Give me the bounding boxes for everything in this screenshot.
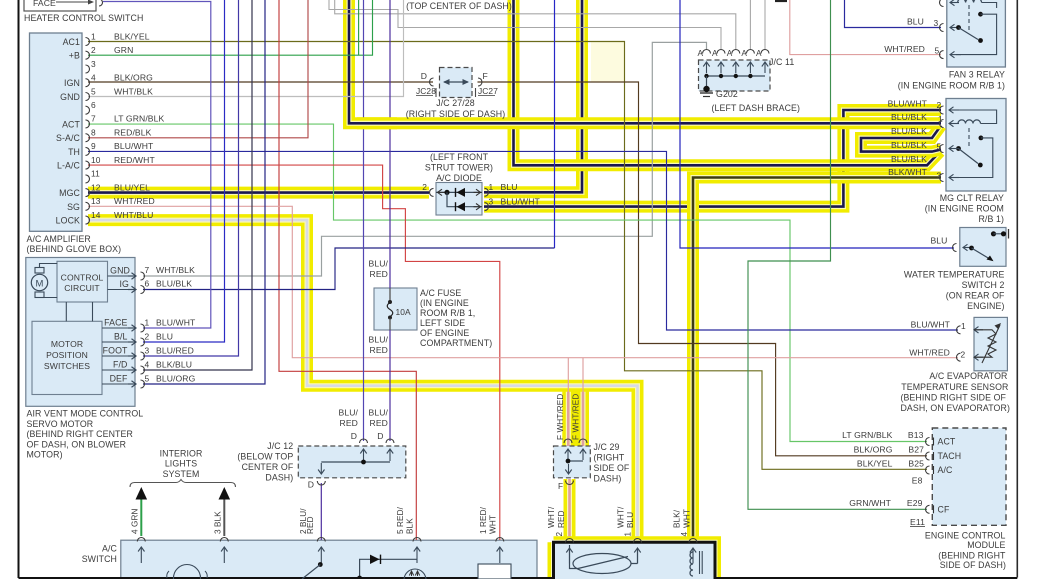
svg-text:WHT/: WHT/ — [617, 506, 626, 528]
green stub x358.6 — [358, 0, 360, 55]
MG CLT relay connectors — [940, 106, 944, 114]
svg-text:WHT: WHT — [683, 509, 692, 528]
svg-text:BLU/BLK: BLU/BLK — [156, 279, 192, 289]
svg-text:RED/WHT: RED/WHT — [114, 155, 155, 165]
svg-text:DASH): DASH) — [594, 474, 622, 484]
svg-text:GND: GND — [60, 92, 80, 102]
svg-text:4: 4 — [145, 360, 150, 370]
compressor pins — [566, 539, 574, 543]
interior lights GRN arrow wire — [140, 498, 142, 536]
svg-text:4 GRN: 4 GRN — [131, 508, 140, 534]
svg-text:FACE: FACE — [104, 318, 127, 328]
svg-text:CF: CF — [938, 504, 950, 514]
svg-text:BLU/RED: BLU/RED — [156, 346, 194, 356]
BLU wire diode pin1 to top via x582 — [484, 0, 582, 192]
servo B/L BLU wire — [143, 0, 225, 342]
svg-text:(BEHIND RIGHT: (BEHIND RIGHT — [938, 551, 1006, 561]
svg-text:1: 1 — [91, 31, 96, 41]
MG CLT hairpin rows 1-5 BLU/BLK — [861, 126, 941, 152]
MG CLT pin2 hairpin wire BLU/WHT (drawn first) — [484, 110, 941, 207]
svg-text:9: 9 — [91, 141, 96, 151]
svg-text:SYSTEM: SYSTEM — [163, 469, 200, 479]
svg-text:OF DASH, ON BLOWER: OF DASH, ON BLOWER — [27, 439, 127, 449]
svg-text:RED: RED — [306, 516, 315, 534]
svg-text:A: A — [741, 49, 747, 58]
svg-text:J/C 29: J/C 29 — [594, 442, 620, 452]
svg-text:3: 3 — [937, 171, 942, 181]
svg-text:CONTROL: CONTROL — [61, 273, 104, 283]
gray wire J/C11 c1 to servo GND path — [143, 42, 707, 276]
svg-text:BLU/WHT: BLU/WHT — [911, 320, 951, 330]
svg-text:D: D — [421, 71, 427, 81]
svg-text:(ON REAR OF: (ON REAR OF — [946, 291, 1005, 301]
svg-text:WHT/: WHT/ — [547, 506, 556, 528]
svg-text:5: 5 — [935, 46, 940, 56]
svg-text:SIDE OF: SIDE OF — [594, 463, 630, 473]
svg-text:BLU/BLK: BLU/BLK — [891, 154, 927, 164]
servo DEF BLU/ORG wire — [143, 0, 265, 384]
water temperature switch 2 internals — [953, 244, 957, 252]
FAN3 BLU wire — [845, 0, 942, 28]
left border vertical — [18, 0, 20, 578]
svg-text:CENTER OF: CENTER OF — [242, 462, 294, 472]
servo motor M symbol — [35, 268, 44, 274]
servo F/D BLK/BLU wire — [143, 0, 252, 370]
A/C diode symbols — [436, 191, 482, 193]
pressure switch ellipse — [573, 554, 631, 574]
svg-text:WATER TEMPERATURE: WATER TEMPERATURE — [904, 270, 1005, 280]
J/C 12 box border — [298, 446, 406, 478]
svg-text:A: A — [698, 49, 704, 58]
svg-text:BLU/WHT: BLU/WHT — [501, 197, 541, 207]
svg-text:BLK: BLK — [406, 518, 415, 534]
J/C 11 box border — [699, 60, 771, 91]
svg-text:BLU/: BLU/ — [368, 335, 388, 345]
svg-text:F: F — [483, 71, 488, 81]
svg-text:OF ENGINE: OF ENGINE — [420, 328, 469, 338]
svg-text:BLK/: BLK/ — [673, 509, 682, 528]
svg-text:2: 2 — [422, 182, 427, 192]
svg-text:A: A — [727, 49, 733, 58]
svg-text:3: 3 — [489, 197, 494, 207]
svg-text:(IN ENGINE ROOM: (IN ENGINE ROOM — [925, 204, 1004, 214]
svg-text:BLU/BLK: BLU/BLK — [891, 140, 927, 150]
servo FACE BLU/WHT wire — [103, 2, 211, 329]
svg-text:WHT: WHT — [489, 515, 498, 534]
svg-text:JC28: JC28 — [416, 86, 436, 96]
svg-text:E11: E11 — [910, 517, 925, 527]
svg-text:(IN ENGINE: (IN ENGINE — [420, 298, 469, 308]
svg-text:11: 11 — [91, 169, 100, 179]
pale highlight remnant — [591, 42, 625, 83]
heater control switch FACE box — [24, 0, 96, 11]
svg-text:ACT: ACT — [938, 437, 956, 447]
svg-text:14: 14 — [91, 210, 101, 220]
svg-text:BLU/WHT: BLU/WHT — [156, 318, 196, 328]
amplifier pin10 RED/WHT wire to A/C switch pin1 — [88, 165, 500, 540]
J/C 27/28 box fill — [440, 68, 473, 98]
bottom border line — [19, 577, 1018, 579]
BLU wire x680 to water temp switch 2 — [680, 0, 954, 248]
J/C 27/28 symbols — [430, 78, 434, 86]
svg-text:WHT/BLK: WHT/BLK — [156, 265, 195, 275]
svg-text:G202: G202 — [716, 89, 738, 99]
svg-text:JC27: JC27 — [478, 86, 498, 96]
BLU/BLK wire via x513.5 to MG CLT pin 5 — [514, 0, 941, 165]
top-left FACE wire — [56, 1, 92, 3]
svg-text:MOTOR: MOTOR — [51, 339, 83, 349]
svg-text:5: 5 — [145, 374, 150, 384]
svg-text:2: 2 — [937, 100, 942, 110]
svg-text:ACT: ACT — [62, 119, 80, 129]
svg-text:WHT/RED: WHT/RED — [114, 196, 155, 206]
svg-text:D: D — [308, 480, 314, 490]
A/C switch internals: switch — [318, 562, 323, 567]
svg-text:RED: RED — [370, 345, 388, 355]
svg-text:BLU/: BLU/ — [368, 408, 388, 418]
svg-text:IG: IG — [120, 279, 130, 289]
svg-text:LOCK: LOCK — [56, 216, 80, 226]
evaporator temp sensor internals — [957, 326, 961, 334]
svg-text:MG CLT RELAY: MG CLT RELAY — [940, 193, 1004, 203]
svg-text:BLU/: BLU/ — [338, 408, 358, 418]
svg-text:F/D: F/D — [113, 360, 127, 370]
svg-text:RED/BLK: RED/BLK — [114, 128, 152, 138]
A/C fuse symbol — [389, 288, 391, 302]
Y1 band repaint over BLU/RED verticals — [357, 117, 397, 129]
J/C 12 box fill — [298, 446, 406, 478]
servo motor outer box — [26, 258, 135, 407]
svg-text:2: 2 — [555, 532, 564, 537]
amplifier pin2 GRN wire — [88, 0, 373, 55]
svg-text:AC1: AC1 — [63, 37, 80, 47]
brace — [130, 480, 236, 488]
FAN 3 relay internals — [958, 0, 982, 3]
svg-text:TH: TH — [68, 147, 80, 157]
svg-text:F WHT/RED: F WHT/RED — [556, 394, 565, 440]
svg-text:A/C EVAPORATOR: A/C EVAPORATOR — [929, 371, 1007, 381]
svg-text:WHT/RED: WHT/RED — [909, 348, 950, 358]
svg-text:FOOT: FOOT — [103, 346, 128, 356]
svg-text:CIRCUIT: CIRCUIT — [64, 283, 100, 293]
J/C 12 symbols — [360, 439, 368, 443]
svg-text:BLK/ORG: BLK/ORG — [114, 73, 153, 83]
servo FOOT BLU/RED wire — [143, 0, 239, 356]
svg-text:IGN: IGN — [64, 78, 80, 88]
clutch coil — [692, 549, 694, 552]
svg-text:B27: B27 — [908, 445, 924, 455]
svg-text:HEATER CONTROL SWITCH: HEATER CONTROL SWITCH — [24, 13, 143, 23]
svg-text:1: 1 — [145, 318, 150, 328]
svg-text:S-A/C: S-A/C — [56, 133, 81, 143]
gray J/C feeder wires (top) — [329, 0, 721, 49]
BLU/RED wires through fuse to J/C12 — [363, 0, 365, 441]
svg-text:12: 12 — [91, 182, 101, 192]
svg-text:4: 4 — [680, 532, 689, 537]
svg-text:BLU: BLU — [501, 182, 518, 192]
amplifier pin1 BLK/YEL wire — [88, 42, 927, 470]
svg-text:4: 4 — [91, 73, 96, 83]
svg-text:1: 1 — [938, 114, 943, 124]
svg-text:MGC: MGC — [59, 188, 80, 198]
svg-text:MODULE: MODULE — [967, 540, 1005, 550]
amplifier pin8 RED/BLK wire — [88, 0, 308, 138]
svg-text:J/C 27/28: J/C 27/28 — [436, 98, 475, 108]
svg-text:(LEFT FRONT: (LEFT FRONT — [430, 152, 489, 162]
svg-text:BLK/BLU: BLK/BLU — [156, 360, 192, 370]
svg-text:BLU/ORG: BLU/ORG — [156, 374, 196, 384]
svg-text:TEMPERATURE SENSOR: TEMPERATURE SENSOR — [901, 382, 1008, 392]
svg-text:BLU: BLU — [907, 17, 924, 27]
right border vertical — [1016, 0, 1018, 578]
A/C diode box — [436, 183, 482, 216]
svg-text:A/C DIODE: A/C DIODE — [436, 173, 482, 183]
svg-text:GRN: GRN — [114, 45, 133, 55]
svg-text:6: 6 — [91, 100, 96, 110]
J/C 27/28 box border — [440, 68, 473, 98]
svg-text:WHT/BLK: WHT/BLK — [114, 86, 153, 96]
svg-text:F: F — [558, 482, 563, 491]
svg-text:COMPARTMENT): COMPARTMENT) — [420, 338, 492, 348]
svg-text:B25: B25 — [908, 459, 924, 469]
MG CLT relay internals — [958, 120, 981, 124]
svg-text:8: 8 — [91, 128, 96, 138]
J/C12 output BLU/RED to A/C switch pin2 — [320, 483, 322, 540]
svg-text:AIR VENT MODE CONTROL: AIR VENT MODE CONTROL — [27, 409, 144, 419]
svg-text:E29: E29 — [907, 498, 923, 508]
svg-text:(LEFT DASH BRACE): (LEFT DASH BRACE) — [712, 103, 801, 113]
svg-text:A: A — [756, 49, 762, 58]
cut-off wire stub top — [775, 0, 787, 2]
svg-text:A: A — [712, 49, 718, 58]
svg-text:RED: RED — [370, 418, 388, 428]
J/C 29 box fill — [554, 446, 591, 478]
RED/BLK continuation x279 to A/C switch pin5 — [279, 0, 416, 540]
svg-text:FAN 3 RELAY: FAN 3 RELAY — [949, 70, 1005, 80]
amplifier pin13 WHT/RED wire to evaporator sensor pin2 — [88, 206, 958, 357]
svg-text:3 BLK: 3 BLK — [214, 511, 223, 534]
svg-text:A/C AMPLIFIER: A/C AMPLIFIER — [27, 234, 91, 244]
svg-text:10: 10 — [91, 155, 101, 165]
A/C fuse box — [374, 288, 417, 330]
svg-text:2: 2 — [145, 332, 150, 342]
J/C29 WHT/RED to compressor pin2 — [564, 479, 576, 538]
svg-text:E8: E8 — [912, 476, 923, 486]
svg-text:BLU/BLK: BLU/BLK — [891, 126, 927, 136]
svg-text:DASH): DASH) — [265, 473, 293, 483]
svg-text:F WHT/RED: F WHT/RED — [572, 394, 581, 440]
control circuit to MPS stubs — [65, 302, 67, 321]
motor position switches box — [32, 321, 102, 394]
svg-text:SERVO MOTOR: SERVO MOTOR — [27, 419, 94, 429]
ECM pins — [926, 438, 930, 446]
svg-text:SWITCHES: SWITCHES — [44, 361, 90, 371]
water temperature switch 2 box — [960, 228, 1006, 267]
svg-text:(BEHIND RIGHT SIDE OF: (BEHIND RIGHT SIDE OF — [900, 393, 1006, 403]
svg-text:(RIGHT: (RIGHT — [594, 453, 625, 463]
A/C switch internals: diode and wiring — [360, 559, 418, 579]
svg-text:SG: SG — [67, 202, 80, 212]
svg-text:MOTOR): MOTOR) — [27, 450, 63, 460]
MG CLT relay box — [946, 99, 1006, 192]
svg-text:BLK/YEL: BLK/YEL — [114, 31, 150, 41]
svg-text:2: 2 — [91, 45, 96, 55]
J/C 11 symbols — [707, 75, 766, 77]
svg-text:M: M — [35, 279, 43, 290]
svg-text:2: 2 — [961, 350, 966, 360]
svg-text:R/B 1): R/B 1) — [978, 214, 1004, 224]
svg-text:3: 3 — [934, 18, 939, 28]
svg-text:B/L: B/L — [114, 332, 128, 342]
svg-text:BLU: BLU — [930, 236, 947, 246]
J/C 29 symbols — [564, 439, 572, 443]
svg-text:(RIGHT SIDE OF DASH): (RIGHT SIDE OF DASH) — [406, 109, 506, 119]
svg-text:BLU: BLU — [626, 512, 635, 528]
dark green GRN/WHT wire to ECM CF — [748, 0, 927, 509]
svg-text:+B: +B — [69, 51, 80, 61]
svg-text:J/C 12: J/C 12 — [267, 441, 293, 451]
amplifier pin7 LT GRN/BLK wire to ECM ACT — [88, 124, 927, 441]
svg-text:BLU/BLK: BLU/BLK — [891, 112, 927, 122]
svg-text:STRUT TOWER): STRUT TOWER) — [425, 163, 493, 173]
svg-text:DEF: DEF — [110, 374, 128, 384]
svg-text:7: 7 — [145, 265, 150, 275]
svg-text:A/C: A/C — [938, 465, 954, 475]
svg-text:D: D — [377, 431, 383, 441]
svg-text:BLU/WHT: BLU/WHT — [888, 99, 928, 109]
svg-text:B13: B13 — [908, 430, 924, 440]
svg-text:J/C 11: J/C 11 — [769, 57, 794, 67]
J/C 11 box fill — [699, 60, 771, 91]
amplifier pin4 BLK/ORG wire west of J/C27-28 — [88, 81, 433, 83]
A/C amplifier pin connectors — [86, 38, 90, 46]
svg-text:LIGHTS: LIGHTS — [165, 459, 197, 469]
svg-text:RED: RED — [557, 510, 566, 528]
servo IG BLU/BLK wire — [143, 248, 555, 290]
svg-text:BLU/: BLU/ — [368, 259, 388, 269]
svg-text:DASH, ON EVAPORATOR): DASH, ON EVAPORATOR) — [900, 403, 1010, 413]
compressor box yellow outline — [554, 542, 716, 579]
A/C switch internals: lamp — [174, 565, 201, 579]
svg-text:(BEHIND GLOVE BOX): (BEHIND GLOVE BOX) — [27, 244, 122, 254]
svg-text:(BELOW TOP: (BELOW TOP — [237, 452, 293, 462]
svg-text:L-A/C: L-A/C — [57, 161, 81, 171]
svg-text:SWITCH 2: SWITCH 2 — [962, 280, 1005, 290]
svg-text:6: 6 — [145, 279, 150, 289]
FAN3 WHT/RED wire — [790, 0, 941, 55]
svg-text:ENGINE): ENGINE) — [967, 301, 1004, 311]
BLK/ORG wire east of J/C27-28 to ECM TACH — [478, 82, 928, 456]
svg-text:WHT/BLU: WHT/BLU — [114, 210, 153, 220]
engine control module box fill — [932, 428, 1006, 525]
svg-text:5: 5 — [91, 86, 96, 96]
amplifier pin9 BLU/WHT wire to evaporator sensor pin1 — [88, 151, 958, 330]
svg-text:LT GRN/BLK: LT GRN/BLK — [114, 114, 165, 124]
amplifier pin5 WHT/BLK wire — [88, 0, 404, 97]
svg-text:INTERIOR: INTERIOR — [160, 449, 203, 459]
A/C switch internals: resistor — [478, 564, 511, 579]
A/C switch pin connectors and arrows — [137, 538, 145, 542]
svg-text:3: 3 — [145, 346, 150, 356]
blue vertical x554.5 — [554, 0, 556, 248]
svg-text:LT GRN/BLK: LT GRN/BLK — [842, 430, 893, 440]
svg-text:5: 5 — [937, 142, 942, 152]
svg-text:WHT/RED: WHT/RED — [884, 44, 925, 54]
svg-text:BLK/YEL: BLK/YEL — [857, 459, 893, 469]
svg-text:SWITCH: SWITCH — [82, 554, 117, 564]
svg-text:TACH: TACH — [938, 451, 962, 461]
svg-text:LEFT SIDE: LEFT SIDE — [420, 318, 465, 328]
svg-text:(BEHIND RIGHT CENTER: (BEHIND RIGHT CENTER — [27, 429, 133, 439]
svg-text:GRN/WHT: GRN/WHT — [849, 498, 891, 508]
ECM box border — [932, 428, 1006, 525]
BLU/YEL row amplifier pin12 to diode pin2 — [88, 187, 429, 199]
BLU/BLK long row to MG CLT pin1 — [349, 0, 941, 123]
svg-text:1 RED/: 1 RED/ — [479, 506, 488, 534]
svg-text:10A: 10A — [396, 307, 412, 317]
svg-text:RED: RED — [370, 269, 388, 279]
svg-text:BLK/WHT: BLK/WHT — [888, 167, 928, 177]
svg-text:7: 7 — [91, 114, 96, 124]
ground G202 — [700, 92, 713, 94]
svg-text:FACE: FACE — [33, 0, 56, 8]
FAN 3 relay box — [947, 0, 1006, 67]
A/C amplifier box — [30, 33, 83, 231]
WHT/BLU amplifier pin14 to compressor pin1 — [88, 220, 638, 538]
J/C 29 box border — [554, 446, 591, 478]
svg-text:(TOP CENTER OF DASH): (TOP CENTER OF DASH) — [406, 1, 512, 11]
svg-text:BLU/YEL: BLU/YEL — [114, 182, 150, 192]
svg-text:BLK/ORG: BLK/ORG — [854, 445, 893, 455]
svg-text:1: 1 — [624, 532, 633, 537]
svg-text:GND: GND — [110, 266, 130, 276]
interior lights BLK arrow wire — [223, 498, 225, 536]
svg-text:BLU/WHT: BLU/WHT — [114, 141, 154, 151]
svg-text:A/C: A/C — [102, 544, 118, 554]
svg-text:POSITION: POSITION — [46, 350, 88, 360]
control circuit box — [57, 261, 108, 302]
svg-text:ENGINE CONTROL: ENGINE CONTROL — [925, 531, 1006, 541]
svg-text:SIDE OF DASH): SIDE OF DASH) — [940, 560, 1006, 570]
svg-text:5 RED/: 5 RED/ — [396, 506, 405, 534]
WHT/RED highlighted drops to J/C29 — [569, 386, 583, 446]
svg-text:1: 1 — [489, 182, 494, 192]
A/C switch box — [121, 540, 537, 579]
svg-text:1: 1 — [961, 321, 966, 331]
WHT/RED drops to J/C29 — [567, 358, 569, 442]
svg-text:13: 13 — [91, 196, 101, 206]
svg-text:RED: RED — [340, 418, 358, 428]
BLK/WHT MG CLT pin3 to compressor pin4 — [693, 178, 941, 539]
svg-text:(IN ENGINE ROOM R/B 1): (IN ENGINE ROOM R/B 1) — [898, 81, 1005, 91]
svg-text:D: D — [351, 431, 357, 441]
svg-text:A/C FUSE: A/C FUSE — [420, 288, 461, 298]
svg-text:ROOM R/B 1,: ROOM R/B 1, — [420, 308, 475, 318]
compressor (magnetic clutch) box — [554, 542, 716, 579]
A/C evaporator temperature sensor box — [974, 317, 1007, 370]
svg-text:3: 3 — [91, 59, 96, 69]
svg-text:BLU: BLU — [156, 332, 173, 342]
A/C switch internals: LED — [404, 569, 426, 579]
A/C diode connectors — [430, 188, 434, 196]
